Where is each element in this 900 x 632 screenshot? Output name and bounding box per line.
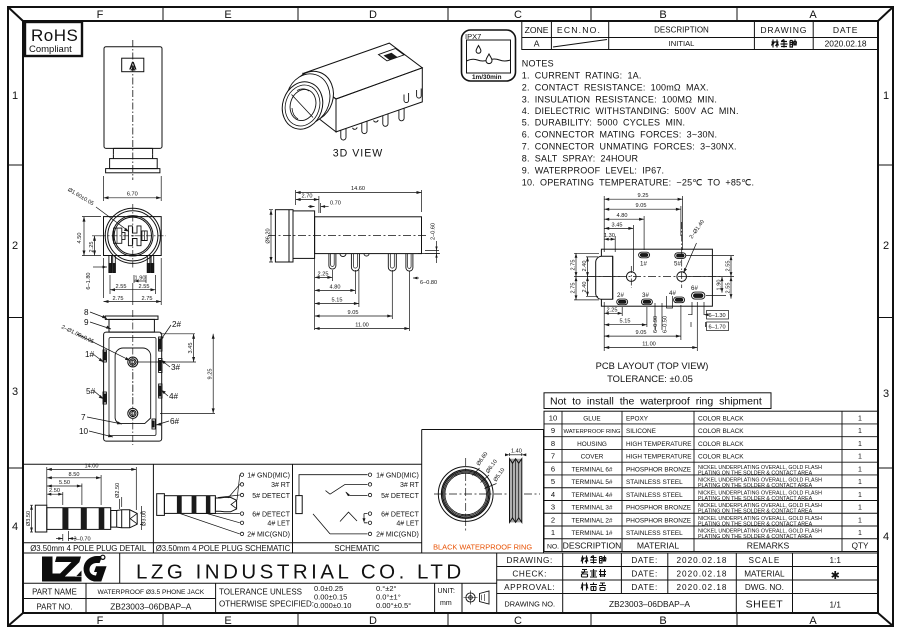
svg-text:D: D (369, 615, 377, 627)
svg-text:1: 1 (12, 90, 18, 102)
not-to-install note box (544, 393, 771, 409)
svg-text:TERMINAL 3#: TERMINAL 3# (572, 505, 613, 512)
svg-text:8. SALT SPRAY: 24HOUR: 8. SALT SPRAY: 24HOUR (522, 154, 639, 164)
svg-text:E: E (224, 615, 231, 627)
svg-text:B: B (659, 9, 666, 21)
svg-text:A: A (534, 39, 540, 49)
bottom panels frame (23, 430, 878, 554)
svg-text:PHOSPHOR BRONZE: PHOSPHOR BRONZE (626, 466, 691, 473)
svg-text:1: 1 (858, 466, 862, 473)
svg-text:1: 1 (858, 428, 862, 435)
dims right (686, 256, 734, 299)
svg-text:1.40: 1.40 (511, 449, 522, 455)
svg-text:DWG. NO.: DWG. NO. (745, 583, 784, 592)
svg-text:DATE:: DATE: (631, 556, 658, 565)
dims (26, 463, 148, 542)
svg-text:1: 1 (858, 517, 862, 524)
svg-text:3: 3 (12, 386, 18, 398)
svg-text:4. DIELECTRIC WITHSTANDING:: 4. DIELECTRIC WITHSTANDING: 500V AC MIN. (522, 106, 739, 116)
svg-text:TERMINAL 1#: TERMINAL 1# (572, 530, 613, 537)
svg-text:14.60: 14.60 (351, 186, 365, 192)
svg-text:RoHS: RoHS (31, 26, 78, 45)
svg-text:5# DETECT: 5# DETECT (252, 493, 290, 500)
svg-text:PLATING ON THE SOLDER & C: PLATING ON THE SOLDER & CONTACT AREA (698, 470, 813, 476)
svg-text:1: 1 (858, 454, 862, 461)
drawing info rows (497, 553, 878, 613)
svg-text:1: 1 (858, 479, 862, 486)
svg-text:5.15: 5.15 (332, 298, 343, 304)
svg-text:4# LET: 4# LET (267, 521, 290, 528)
svg-text:4: 4 (883, 531, 889, 543)
waterproof ring drawing (434, 449, 540, 533)
svg-text:2.55: 2.55 (139, 284, 150, 290)
svg-text:2.75: 2.75 (571, 283, 577, 294)
svg-text:5.50: 5.50 (59, 480, 70, 486)
dims bottom (604, 302, 728, 351)
svg-text:MATERIAL: MATERIAL (637, 541, 680, 551)
svg-text:SILICONE: SILICONE (626, 428, 656, 435)
svg-text:6–0.80: 6–0.80 (420, 280, 437, 286)
DESCRIPTION column (563, 415, 622, 550)
svg-text:9.05: 9.05 (636, 330, 647, 336)
projection symbol (464, 591, 490, 605)
callout 8 (60, 308, 181, 437)
svg-text:TERMINAL 6#: TERMINAL 6# (572, 466, 613, 473)
svg-text:OTHERWISE SPECIFIED:: OTHERWISE SPECIFIED: (219, 600, 314, 609)
svg-text:5. DURABILITY: 5000 CYCLES: 5. DURABILITY: 5000 CYCLES MIN. (522, 118, 685, 128)
svg-text:1m/30min: 1m/30min (472, 74, 502, 81)
svg-text:C: C (514, 9, 522, 21)
svg-text:✱: ✱ (831, 570, 840, 582)
svg-text:WATERPROOF RING: WATERPROOF RING (563, 429, 620, 435)
svg-text:EPOXY: EPOXY (626, 415, 649, 422)
svg-text:INITIAL: INITIAL (669, 39, 695, 48)
svg-text:2020.02.18: 2020.02.18 (677, 570, 728, 579)
section A marker (122, 58, 144, 71)
svg-text:6#: 6# (170, 417, 180, 426)
svg-text:1: 1 (883, 90, 889, 102)
svg-text:1#: 1# (640, 261, 647, 268)
svg-text:DATE: DATE (833, 25, 858, 35)
svg-text:Ø6.20: Ø6.20 (266, 228, 272, 243)
svg-text:DRAWING:: DRAWING: (507, 556, 553, 565)
svg-text:4.80: 4.80 (330, 284, 341, 290)
svg-text:1: 1 (551, 528, 555, 537)
svg-text:PLATING ON THE SOLDER & C: PLATING ON THE SOLDER & CONTACT AREA (698, 496, 813, 502)
svg-text:ZONE: ZONE (525, 25, 549, 35)
plug schematic drawing (157, 473, 291, 539)
svg-text:3.45: 3.45 (612, 222, 623, 228)
QTY column (852, 415, 869, 550)
svg-text:GLUE: GLUE (583, 415, 600, 422)
svg-text:0.00°±0.5°: 0.00°±0.5° (376, 601, 411, 610)
top view (jack body from above) (104, 40, 162, 180)
centerline (132, 40, 134, 180)
ECN revision table (522, 21, 878, 50)
svg-text:STAINLESS STEEL: STAINLESS STEEL (626, 530, 683, 537)
svg-text:8: 8 (551, 439, 555, 448)
svg-text:1# GND(MIC): 1# GND(MIC) (247, 473, 290, 480)
dim dia 1.60 leader (66, 187, 129, 231)
REMARKS column (698, 415, 822, 550)
svg-text:Compliant: Compliant (29, 44, 72, 55)
side view (268, 210, 440, 271)
svg-text:TERMINAL 2#: TERMINAL 2# (572, 517, 613, 524)
plug detail drawing (26, 463, 148, 542)
svg-text:PHOSPHOR BRONZE: PHOSPHOR BRONZE (626, 517, 691, 524)
svg-text:6# DETECT: 6# DETECT (381, 511, 419, 518)
svg-text:COLOR BLACK: COLOR BLACK (698, 441, 744, 448)
svg-text:6. CONNECTOR MATING FORCES:: 6. CONNECTOR MATING FORCES: 3~30N. (522, 130, 717, 140)
svg-text:COVER: COVER (581, 454, 604, 461)
svg-text:7: 7 (551, 452, 555, 461)
svg-text:8.50: 8.50 (69, 472, 80, 478)
svg-text:D: D (369, 9, 377, 21)
svg-text:PLATING ON THE SOLDER & C: PLATING ON THE SOLDER & CONTACT AREA (698, 509, 813, 515)
svg-text:6–1.70: 6–1.70 (709, 325, 726, 331)
svg-text:Ø2.50: Ø2.50 (115, 483, 121, 498)
svg-text:Ø3.50: Ø3.50 (26, 511, 32, 526)
svg-text:3.45: 3.45 (188, 343, 194, 354)
svg-text:APPROVAL:: APPROVAL: (504, 583, 555, 592)
svg-text:5.15: 5.15 (620, 319, 631, 325)
svg-text:1: 1 (858, 505, 862, 512)
svg-text:2.25: 2.25 (89, 242, 95, 253)
4# small bracket (667, 296, 673, 308)
svg-text:2.40: 2.40 (582, 261, 588, 272)
NO column (547, 414, 559, 551)
barrel outer ellipse (276, 77, 328, 135)
svg-text:2.70: 2.70 (302, 194, 313, 200)
legs below (109, 256, 154, 273)
NOTES block (522, 59, 754, 188)
svg-text:4# LET: 4# LET (396, 521, 419, 528)
svg-text:9: 9 (551, 426, 555, 435)
svg-text:2–Ø1.00±0.05: 2–Ø1.00±0.05 (60, 324, 94, 345)
svg-text:1. CURRENT RATING: 1A.: 1. CURRENT RATING: 1A. (522, 71, 642, 81)
bottom view (cover side with terminal callouts) (60, 308, 215, 445)
svg-text:UNIT:: UNIT: (438, 588, 456, 595)
section mark plate on top (379, 49, 405, 61)
body right face (336, 68, 422, 132)
svg-text:6#: 6# (691, 285, 698, 292)
svg-text:WATERPROOF Ø3.5 PHONE JACK: WATERPROOF Ø3.5 PHONE JACK (97, 589, 204, 596)
body front-left edge face (303, 74, 336, 132)
svg-text:Ø6.60: Ø6.60 (476, 451, 490, 467)
svg-text:2020.02.18: 2020.02.18 (677, 583, 728, 592)
svg-text:4: 4 (12, 521, 18, 533)
svg-text:ZB23003–06DBAP–A: ZB23003–06DBAP–A (110, 602, 191, 612)
svg-text:BLACK WATERPROOF RING: BLACK WATERPROOF RING (433, 543, 532, 552)
svg-text:PART NO.: PART NO. (37, 603, 73, 612)
svg-text:4.80: 4.80 (617, 213, 628, 219)
svg-text:PCB LAYOUT (TOP VIEW): PCB LAYOUT (TOP VIEW) (596, 360, 709, 371)
svg-text:3# RT: 3# RT (271, 482, 291, 489)
dims top (604, 193, 683, 271)
svg-text:2: 2 (12, 240, 18, 252)
svg-text:9. WATERPROOF LEVEL: IP67.: 9. WATERPROOF LEVEL: IP67. (522, 166, 664, 176)
svg-text:9.05: 9.05 (348, 310, 359, 316)
svg-text:DESCRIPTION: DESCRIPTION (563, 541, 622, 551)
svg-text:2.55: 2.55 (116, 284, 127, 290)
svg-text:NO.: NO. (547, 544, 559, 551)
svg-text:2.25: 2.25 (607, 307, 618, 313)
svg-text:0.000±0.10: 0.000±0.10 (314, 601, 351, 610)
svg-text:1: 1 (858, 441, 862, 448)
svg-text:2–Ø1.40: 2–Ø1.40 (689, 219, 706, 240)
svg-text:STAINLESS STEEL: STAINLESS STEEL (626, 492, 683, 499)
svg-text:2: 2 (551, 516, 555, 525)
barrel collar ring (283, 66, 340, 128)
svg-text:MATERIAL: MATERIAL (744, 570, 785, 579)
svg-text:1.90: 1.90 (717, 280, 723, 291)
svg-text:ZB23003–06DBAP–A: ZB23003–06DBAP–A (609, 599, 690, 609)
side view dims (266, 186, 440, 331)
svg-text:Not to install the waterproof: Not to install the waterproof ring shipm… (550, 396, 762, 408)
svg-text:2.50: 2.50 (49, 488, 60, 494)
svg-text:COLOR BLACK: COLOR BLACK (698, 454, 744, 461)
svg-text:Ø3.50mm 4 POLE PLUG DETAIL: Ø3.50mm 4 POLE PLUG DETAIL (30, 544, 147, 553)
svg-text:DESCRIPTION: DESCRIPTION (654, 26, 709, 35)
terminal bumps on edges (103, 337, 162, 429)
svg-text:2#: 2# (172, 320, 182, 329)
svg-text:2.25: 2.25 (318, 271, 329, 277)
svg-text:TERMINAL 4#: TERMINAL 4# (572, 492, 613, 499)
PCB layout view (571, 193, 735, 384)
svg-text:1.90: 1.90 (135, 276, 146, 282)
svg-text:DRAWING: DRAWING (760, 25, 807, 35)
svg-text:10: 10 (79, 427, 89, 436)
name stamps (581, 556, 606, 591)
svg-text:8: 8 (84, 308, 89, 317)
svg-text:HOUSING: HOUSING (577, 441, 607, 448)
zone letters top (97, 9, 818, 21)
svg-text:4#: 4# (669, 290, 676, 297)
MATERIAL column (626, 415, 691, 550)
materials table (544, 411, 878, 551)
svg-text:TOLERANCE UNLESS: TOLERANCE UNLESS (219, 588, 302, 597)
svg-text:1: 1 (858, 492, 862, 499)
svg-text:9: 9 (84, 318, 89, 327)
svg-text:5: 5 (551, 477, 555, 486)
svg-text:4.50: 4.50 (77, 233, 83, 244)
svg-text:SCHEMATIC: SCHEMATIC (334, 544, 380, 553)
dims left (571, 253, 621, 300)
svg-text:LZG INDUSTRIAL CO. LTD: LZG INDUSTRIAL CO. LTD (136, 561, 465, 584)
leader lines to terminals (180, 475, 240, 534)
svg-text:COLOR BLACK: COLOR BLACK (698, 428, 744, 435)
svg-text:2–0.60: 2–0.60 (431, 223, 437, 240)
svg-text:HIGH TEMPERATURE: HIGH TEMPERATURE (626, 454, 691, 461)
svg-text:2020.02.18: 2020.02.18 (825, 39, 867, 49)
svg-text:2# MIC(GND): 2# MIC(GND) (376, 532, 419, 539)
svg-text:3# RT: 3# RT (400, 482, 420, 489)
svg-text:6–1.30: 6–1.30 (709, 313, 726, 319)
svg-text:1/1: 1/1 (830, 601, 842, 610)
svg-text:STAINLESS STEEL: STAINLESS STEEL (626, 479, 683, 486)
svg-text:6–1.80: 6–1.80 (86, 272, 92, 289)
svg-text:4: 4 (551, 490, 555, 499)
svg-text:Ø3.00: Ø3.00 (142, 511, 148, 526)
svg-text:3: 3 (551, 503, 555, 512)
svg-text:2: 2 (883, 240, 889, 252)
svg-text:10. OPERATING TEMPERATURE:: 10. OPERATING TEMPERATURE: −25℃ TO +85℃. (522, 178, 754, 188)
svg-text:2.55: 2.55 (726, 283, 732, 294)
svg-text:10: 10 (549, 414, 557, 423)
svg-text:PHOSPHOR BRONZE: PHOSPHOR BRONZE (626, 505, 691, 512)
pads (stadium shapes) (617, 252, 705, 305)
centerlines (132, 204, 134, 268)
svg-text:2.40: 2.40 (582, 282, 588, 293)
svg-text:11.00: 11.00 (642, 342, 656, 348)
svg-text:9.05: 9.05 (636, 203, 647, 209)
inner contact slots (114, 228, 125, 243)
body top face (303, 43, 422, 99)
zone numbers right (883, 90, 889, 543)
svg-text:4#: 4# (169, 392, 179, 401)
2-dia1.40 leader (684, 219, 706, 273)
svg-text:PART NAME: PART NAME (32, 588, 77, 597)
svg-text:DATE:: DATE: (631, 583, 658, 592)
svg-text:F: F (97, 615, 104, 627)
svg-text:7. CONNECTOR UNMATING FORCE: 7. CONNECTOR UNMATING FORCES: 3~30NX. (522, 142, 737, 152)
svg-text:Ø5.10: Ø5.10 (493, 467, 507, 483)
drawer name stamp (CJK name) (772, 40, 797, 48)
svg-text:COLOR BLACK: COLOR BLACK (698, 415, 744, 422)
svg-text:6–0.90: 6–0.90 (653, 316, 659, 333)
svg-text:11.00: 11.00 (355, 323, 369, 329)
svg-text:14.00: 14.00 (85, 463, 99, 469)
svg-text:TOLERANCE: ±0.05: TOLERANCE: ±0.05 (607, 373, 693, 384)
svg-text:3. INSULATION RESISTANCE: 1: 3. INSULATION RESISTANCE: 100MΩ MIN. (522, 95, 717, 105)
svg-text:3D VIEW: 3D VIEW (333, 148, 384, 160)
svg-text:DRAWING NO.: DRAWING NO. (504, 600, 555, 609)
svg-text:2.75: 2.75 (571, 260, 577, 271)
svg-text:REMARKS: REMARKS (747, 541, 790, 551)
svg-text:1.30: 1.30 (604, 233, 615, 239)
zone numbers left (12, 90, 18, 533)
svg-text:CHECK:: CHECK: (512, 570, 547, 579)
front view dims bottom: 6-1.80 / 1.90 / 2.55 / 2.75 (86, 258, 161, 305)
svg-text:PLATING ON THE SOLDER & C: PLATING ON THE SOLDER & CONTACT AREA (698, 534, 813, 540)
svg-text:2. CONTACT RESISTANCE: 100m: 2. CONTACT RESISTANCE: 100mΩ MAX. (522, 83, 709, 93)
svg-text:1: 1 (858, 415, 862, 422)
svg-text:2.75: 2.75 (113, 296, 124, 302)
svg-text:F: F (97, 9, 104, 21)
dim 6.70 (front view width) (104, 176, 162, 201)
svg-text:9.25: 9.25 (638, 193, 649, 199)
svg-text:SCALE: SCALE (748, 556, 780, 565)
RoHS compliant box (25, 22, 82, 56)
svg-text:3: 3 (883, 388, 889, 400)
svg-text:6.70: 6.70 (127, 192, 138, 198)
mount holes (627, 272, 637, 282)
svg-text:DATE:: DATE: (631, 570, 658, 579)
svg-text:ECN.NO.: ECN.NO. (557, 25, 601, 35)
ring side profile (510, 459, 522, 523)
svg-text:2.75: 2.75 (142, 296, 153, 302)
svg-text:A: A (809, 615, 817, 627)
svg-text:3–0.70: 3–0.70 (74, 537, 91, 543)
svg-text:6# DETECT: 6# DETECT (252, 511, 290, 518)
LZG logo (42, 555, 107, 582)
3D view of connector (276, 43, 422, 140)
svg-text:0.70: 0.70 (330, 201, 341, 207)
svg-text:A: A (809, 9, 817, 21)
svg-text:HIGH TEMPERATURE: HIGH TEMPERATURE (626, 441, 691, 448)
svg-text:PLATING ON THE SOLDER & C: PLATING ON THE SOLDER & CONTACT AREA (698, 483, 813, 489)
svg-text:5#: 5# (674, 261, 681, 268)
svg-text:2.55: 2.55 (726, 261, 732, 272)
svg-text:3#: 3# (171, 363, 181, 372)
svg-text:Ø1.60±0.05: Ø1.60±0.05 (66, 187, 94, 207)
svg-text:1# GND(MIC): 1# GND(MIC) (376, 473, 419, 480)
svg-text:QTY: QTY (852, 542, 869, 551)
svg-text:7: 7 (81, 413, 86, 422)
IPX7 waterproof symbol (462, 30, 516, 81)
svg-text:E: E (224, 9, 231, 21)
part name / no rows (32, 584, 455, 612)
svg-text:2#: 2# (617, 292, 624, 299)
svg-text:mm: mm (440, 600, 452, 607)
front view dims left: 4.50 / 2.25 (77, 217, 101, 256)
front view (jack face with circles) (100, 204, 166, 273)
svg-text:2# MIC(GND): 2# MIC(GND) (247, 532, 290, 539)
svg-text:5# DETECT: 5# DETECT (381, 493, 419, 500)
pins (341, 89, 421, 141)
svg-text:NOTES: NOTES (522, 59, 554, 69)
schematic panel (296, 473, 420, 539)
dims 3.45 and 9.25 (136, 334, 215, 414)
svg-text:2020.02.18: 2020.02.18 (677, 556, 728, 565)
svg-text:1: 1 (858, 530, 862, 537)
svg-text:6: 6 (551, 465, 555, 474)
zone letters bottom (97, 615, 818, 627)
svg-text:6–0.50: 6–0.50 (663, 316, 669, 333)
svg-text:TERMINAL 5#: TERMINAL 5# (572, 479, 613, 486)
svg-text:B: B (659, 615, 666, 627)
title block (23, 553, 878, 613)
svg-text:1:1: 1:1 (830, 556, 842, 565)
svg-text:3#: 3# (642, 292, 649, 299)
svg-text:C: C (514, 615, 522, 627)
svg-text:PLATING ON THE SOLDER & C: PLATING ON THE SOLDER & CONTACT AREA (698, 521, 813, 527)
svg-text:Ø3.50mm 4 POLE PLUG SCHEMA: Ø3.50mm 4 POLE PLUG SCHEMATIC (156, 544, 291, 553)
svg-text:SHEET: SHEET (746, 599, 784, 611)
6-1.30 6-1.70 framed labels (692, 302, 704, 315)
legs (329, 254, 440, 272)
svg-text:9.25: 9.25 (208, 369, 214, 380)
